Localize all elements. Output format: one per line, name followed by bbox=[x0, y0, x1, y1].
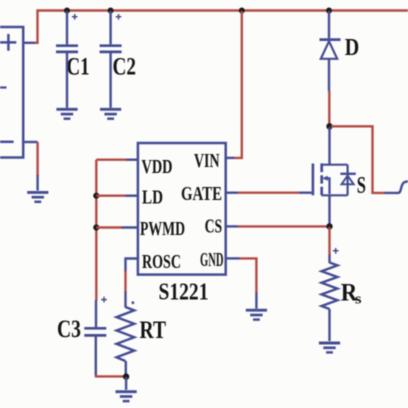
svg-text:C1: C1 bbox=[67, 54, 90, 81]
wire: GATE pin to gate (blue/red/blue) bbox=[226, 191, 238, 193]
gate bar bbox=[312, 164, 315, 196]
svg-text:D: D bbox=[345, 35, 360, 61]
node: rail junction at VIN riser bbox=[239, 8, 245, 14]
wire: inductor start hump at right edge (blue) bbox=[385, 181, 408, 193]
ground (under C1) bbox=[56, 109, 77, 118]
resistor RT bbox=[117, 307, 135, 361]
ground (under rectifier output) bbox=[27, 192, 48, 201]
node: CS / source / Rs junction bbox=[326, 223, 332, 229]
svg-text:C3: C3 bbox=[57, 316, 81, 343]
svg-text:S1221: S1221 bbox=[159, 279, 209, 306]
wire: junction to ground bbox=[125, 377, 127, 390]
bridge rectifier / source block (cut at left edge) bbox=[0, 27, 23, 158]
capacitor C2 bbox=[100, 44, 122, 47]
wire: diode D cathode lead bbox=[328, 11, 330, 38]
wire: VIN pin stub (blue) bbox=[226, 157, 234, 159]
wire: top VIN rail (red) from rectifier riser to right edge bbox=[34, 11, 408, 43]
svg-text:VDD: VDD bbox=[142, 156, 173, 178]
svg-text:VIN: VIN bbox=[194, 150, 220, 172]
wire: output branch to the right (red) bbox=[331, 126, 385, 193]
body diode of S bbox=[340, 173, 355, 175]
wire: CS pin to source node (blue then red) bbox=[226, 225, 238, 227]
wire: C2 top lead bbox=[109, 11, 111, 44]
wire: Rs top lead (red then blue) bbox=[328, 227, 330, 255]
ground (under C2) bbox=[100, 109, 121, 118]
wire: PWMD pin feed bbox=[96, 226, 122, 228]
wire: GND pin to ground (blue, red, blue) bbox=[226, 257, 240, 259]
wire: C1 bottom lead bbox=[66, 53, 68, 108]
wire: bus to C3 (blue) bbox=[95, 300, 97, 327]
wire: C3 bottom lead bbox=[95, 337, 97, 376]
resistor Rs bbox=[322, 263, 338, 310]
transistor S (power MOSFET with body diode) bbox=[313, 127, 356, 225]
wire: LD pin feed bbox=[96, 194, 126, 196]
wire: C3 to ground node (red) bbox=[95, 375, 126, 377]
wire: rectifier positive output (blue) bbox=[23, 42, 35, 44]
minus terminal mark bbox=[0, 141, 14, 144]
wire: supply bus (red) down left side bbox=[95, 160, 97, 301]
capacitor C1 bbox=[56, 44, 78, 47]
wire: C2 bottom lead bbox=[109, 53, 111, 108]
wire: stub at left edge bbox=[0, 86, 7, 88]
node: bus junction at PWMD bbox=[93, 224, 99, 230]
polarity mark of RT bbox=[132, 301, 135, 304]
svg-text:s: s bbox=[355, 292, 362, 308]
IC U1 S1221 bbox=[138, 143, 226, 275]
ground (under Rs) bbox=[319, 343, 340, 352]
channel bar segments bbox=[320, 163, 323, 195]
wire: RT bottom lead bbox=[125, 361, 127, 376]
wire: source lead down bbox=[328, 195, 330, 225]
wire: drain lead bbox=[328, 127, 330, 165]
diode D bbox=[320, 38, 341, 41]
svg-text:LD: LD bbox=[142, 187, 163, 209]
svg-text:GATE: GATE bbox=[181, 183, 222, 205]
node: rail junction at diode D bbox=[326, 8, 332, 14]
ground (under GND pin) bbox=[246, 310, 267, 319]
node: rail junction at C1 bbox=[64, 8, 70, 14]
polarity mark + of Rs bbox=[333, 248, 339, 254]
wire: C1 top lead bbox=[66, 11, 68, 44]
wire: rectifier negative output to ground (blue then red) bbox=[23, 141, 38, 143]
svg-text:S: S bbox=[357, 173, 366, 199]
node: switch/drain junction bbox=[326, 123, 332, 129]
wire: Rs bottom lead bbox=[328, 309, 330, 341]
node: rail junction at C2 bbox=[108, 8, 114, 14]
wire: VIN riser (red) down to IC VIN pin bbox=[233, 11, 242, 158]
body connection with arrow bbox=[324, 178, 330, 194]
polarity mark + of C3 bbox=[101, 297, 107, 303]
node: bus junction at LD bbox=[93, 193, 99, 199]
svg-text:GND: GND bbox=[200, 249, 224, 271]
ground (under RT/C3) bbox=[116, 392, 137, 401]
wire: ROSC pin to RT (blue, red, blue) bbox=[126, 259, 138, 272]
plus terminal mark bbox=[0, 34, 16, 51]
svg-text:ROSC: ROSC bbox=[142, 251, 181, 273]
polarity mark + of C2 bbox=[116, 14, 122, 20]
node: C3/RT ground junction bbox=[123, 373, 129, 379]
svg-text:C2: C2 bbox=[113, 54, 137, 81]
svg-text:RT: RT bbox=[140, 317, 167, 344]
capacitor C3 bbox=[84, 327, 106, 330]
wire: VDD feed (red from bus, blue stub) bbox=[96, 158, 127, 160]
svg-text:CS: CS bbox=[205, 216, 223, 238]
svg-text:PWMD: PWMD bbox=[140, 218, 185, 240]
polarity mark + of C1 bbox=[72, 14, 78, 20]
wire: diode D anode lead (blue then red) bbox=[328, 60, 330, 92]
